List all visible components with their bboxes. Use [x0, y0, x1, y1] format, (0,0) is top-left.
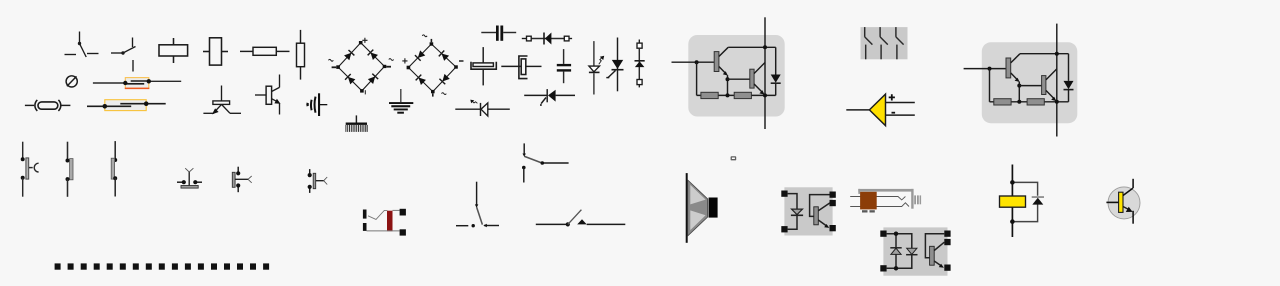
- node BR1 ac right terminal: [383, 65, 387, 68]
- wire relay diode loop: [1012, 182, 1037, 221]
- input wire U1: [672, 61, 715, 63]
- bridge rectifier BR1: [329, 38, 394, 95]
- wire Q5e to Q6 base: [1019, 85, 1041, 87]
- label BR1 plus sign: [362, 38, 367, 43]
- wire BR1 diamond: [338, 43, 384, 91]
- diode D4 (freewheel): [775, 47, 777, 74]
- switch SW8: [456, 182, 499, 228]
- node BR2 plus terminal: [407, 66, 411, 70]
- contact SW4: [111, 141, 117, 196]
- input wires U5: [887, 234, 912, 269]
- switch array SW1 (3x): [861, 27, 908, 59]
- output wire (vertical) U2: [1056, 24, 1058, 137]
- module body U1: [688, 35, 784, 117]
- earth ground: [389, 89, 413, 114]
- dotted wire (squares): [55, 263, 270, 269]
- trimmer capacitor CT1: [471, 47, 496, 85]
- label BR1 ac tilde right: [389, 59, 394, 61]
- relay coil box K1: [159, 38, 188, 63]
- darlington module U2: [964, 24, 1078, 137]
- switch SW1b: [880, 27, 888, 59]
- wire BR2 diamond: [408, 44, 456, 92]
- crystal Y1: [25, 100, 71, 111]
- input wire U2: [964, 68, 1006, 70]
- audio jack J1: [850, 189, 921, 213]
- node dot Q5e: [1017, 84, 1021, 88]
- thyristor SCR1 (vertical): [606, 38, 623, 92]
- node BR1 ac left terminal: [336, 65, 340, 69]
- photodiode D10 (horizontal): [455, 100, 510, 116]
- resistor R7: [1027, 99, 1044, 105]
- bottom wire U2: [990, 101, 1069, 103]
- speaker cone: [688, 180, 708, 236]
- wire Q5 emitter drop: [1018, 82, 1020, 102]
- feed-through capacitor CT2: [501, 56, 541, 79]
- switch SW10: [536, 210, 626, 227]
- jack plug ridges: [914, 195, 916, 204]
- node dot U2 input: [988, 67, 992, 71]
- phototransistor Q8: [925, 234, 944, 258]
- node dot U1 bottom-mid: [726, 93, 730, 97]
- top wire U1: [728, 46, 776, 48]
- resistor R5: [734, 92, 751, 98]
- pin 2 U5: [880, 265, 886, 271]
- node BR2 ac top terminal: [430, 42, 434, 45]
- relay K2 with diode: [1000, 165, 1045, 238]
- pin 6 U5 base: [944, 231, 950, 237]
- resistor R4: [701, 92, 718, 98]
- switch S1: [65, 32, 99, 58]
- node dot U1 bottom-right: [763, 93, 767, 97]
- diode BR1b: [368, 50, 379, 61]
- wire left drop U1: [696, 62, 698, 95]
- bridge rectifier BR2: [402, 35, 463, 97]
- no-connect symbol: [66, 76, 77, 87]
- optocoupler U4: [781, 187, 836, 235]
- diode BR1d: [368, 74, 379, 85]
- wire BR2 bottom stub: [432, 93, 434, 96]
- UJT Q1: [203, 86, 241, 115]
- node BR1 plus terminal: [359, 41, 363, 44]
- node BR2 minus terminal: [454, 65, 458, 68]
- transistor Q6: [1042, 76, 1046, 95]
- resistor R1 (vertical box, side leads): [203, 38, 228, 65]
- wire BR1 left stub: [332, 66, 337, 68]
- capacitor C1: [481, 26, 516, 41]
- piezo buzzer LS1: [308, 93, 328, 116]
- bottom wire U1: [697, 94, 776, 96]
- reed switch F2 (yellow highlight): [87, 100, 166, 111]
- LED D8: [907, 248, 917, 254]
- wire left drop U2: [989, 69, 991, 102]
- jack solder lugs: [862, 210, 868, 212]
- wire BR1 right stub: [386, 66, 391, 68]
- pushbutton SW2: [21, 142, 39, 197]
- output wire (vertical) U1: [764, 17, 766, 129]
- phototransistor Q7: [810, 195, 830, 217]
- optocoupler U5 (AC input): [880, 227, 950, 275]
- node BR2 ac bottom terminal: [431, 90, 435, 93]
- transistor Q5: [1006, 58, 1011, 78]
- label BR1 minus sign: [364, 90, 366, 94]
- top wire U2: [1020, 53, 1069, 55]
- switch S2: [111, 38, 136, 72]
- jack sleeve contact wire: [850, 203, 909, 207]
- speaker magnet: [709, 198, 718, 218]
- pin 5 U4 collector: [830, 200, 836, 206]
- transistor Q9 (in circle): [1106, 179, 1140, 224]
- resistor R6: [994, 99, 1011, 105]
- node BR1 minus terminal: [360, 89, 364, 93]
- jack socket body: [860, 192, 877, 210]
- tilt sensor SW7: [308, 169, 328, 193]
- wire Q3e to Q4 base: [728, 78, 750, 80]
- tilt sensor SW6: [232, 167, 251, 193]
- resistor R2 (horizontal): [240, 47, 290, 55]
- LED D7: [891, 248, 901, 254]
- diode BR2d: [439, 74, 450, 85]
- pin 5 U5 collector: [944, 239, 950, 245]
- test point pad: [731, 156, 737, 160]
- switch SW1c: [896, 27, 904, 59]
- diode D9: [1032, 196, 1044, 198]
- module body U2: [982, 42, 1078, 123]
- diode BR1c: [345, 74, 356, 85]
- diode BR2c: [439, 51, 450, 62]
- speaker baffle: [686, 173, 688, 243]
- thyristor SCR2 (horizontal): [524, 89, 575, 106]
- node dot U2 top: [1055, 52, 1059, 56]
- pin 1 U4 anode: [781, 191, 787, 197]
- node dot U1 input: [695, 60, 699, 64]
- resistor R3 (vertical): [297, 30, 305, 80]
- comparator U3: [846, 94, 915, 126]
- diode D1 (square pins): [522, 33, 572, 45]
- vibration motor M1: [363, 209, 406, 236]
- LED D6: [788, 194, 797, 210]
- wire BR2 top stub: [430, 39, 432, 42]
- diode BR1a: [344, 50, 355, 61]
- pin 4 U4 emitter: [830, 225, 836, 231]
- node dot U2 bottom-mid: [1017, 100, 1021, 104]
- switch SW9: [522, 143, 569, 182]
- LED D2: [589, 41, 604, 94]
- pin 2 U4 cathode: [781, 226, 787, 232]
- module body SW1: [861, 27, 908, 59]
- diode BR2a: [415, 50, 426, 61]
- diode BR2b: [416, 75, 427, 86]
- diode D5 (freewheel): [1068, 54, 1070, 81]
- relay coil: [1000, 196, 1026, 207]
- node dot U2 bottom-right: [1055, 100, 1059, 104]
- diode D3 (square pins, vertical): [635, 40, 645, 88]
- node dot Q3e: [726, 77, 730, 81]
- transistor Q4: [750, 69, 754, 88]
- label BR1 ac tilde left: [329, 59, 334, 61]
- pin 1 U5: [880, 231, 886, 237]
- speaker LS2: [686, 173, 718, 243]
- contact SW3: [66, 142, 74, 197]
- node relay bottom junction: [1010, 219, 1015, 224]
- capacitor C2: [557, 49, 571, 83]
- jack tip contact wire: [850, 197, 905, 200]
- tilt sensor SW5: [177, 168, 202, 188]
- switch SW1a: [865, 27, 873, 59]
- module body U4: [784, 187, 832, 235]
- wire relay coil lead: [1011, 165, 1013, 238]
- darlington module U1: [672, 17, 785, 129]
- chassis ground: [346, 115, 368, 131]
- pin 4 U5 emitter: [944, 265, 950, 271]
- node relay top junction: [1010, 180, 1015, 185]
- module body U5: [883, 227, 947, 275]
- pin 6 U4 base: [830, 192, 836, 198]
- transistor Q2 (NPN): [255, 75, 281, 115]
- transistor Q3: [714, 52, 719, 72]
- wire Q3 emitter drop: [727, 75, 729, 95]
- node dot U1 top: [763, 45, 767, 49]
- reed switch F1 (orange highlight): [93, 78, 181, 89]
- jack body frame: [858, 189, 913, 192]
